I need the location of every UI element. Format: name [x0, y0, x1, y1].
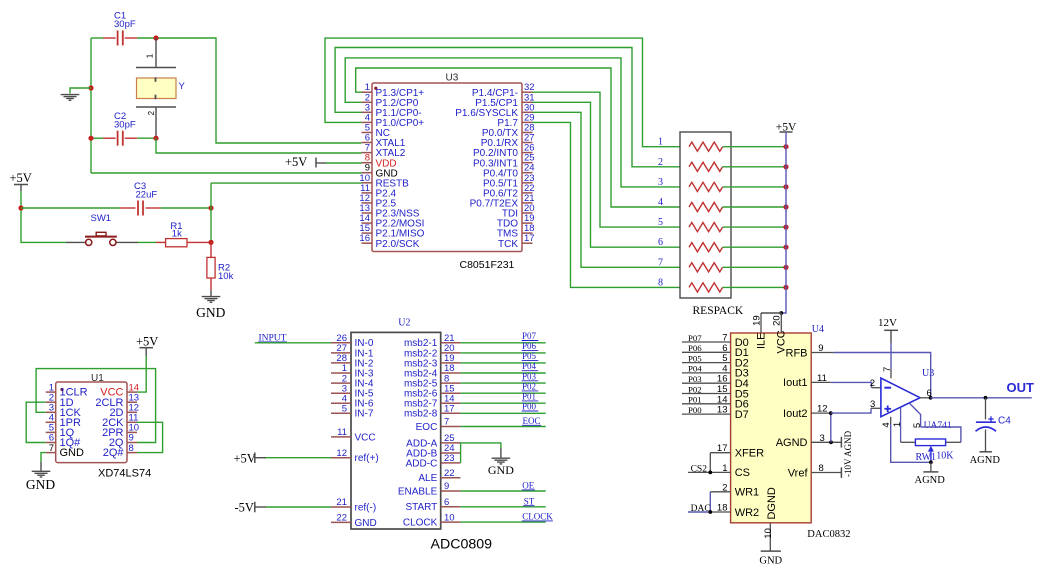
wire Iout2 to AGND [830, 413, 832, 442]
op-amp U3 pin 3 stub [871, 407, 881, 409]
U3 pin 22 P0.6/T2 [522, 192, 533, 194]
U3 pin 30 P1.6/SYSCLK [522, 111, 533, 113]
U3 pin 1 P1.3/CP1+ [362, 91, 373, 93]
svg-text:P06: P06 [522, 341, 537, 351]
wire 1CK to 2Q loop [36, 369, 156, 443]
U2 pin 6 START [441, 506, 461, 508]
wire net C1-XTAL1 top [91, 37, 104, 39]
U1 pin 2 1D [46, 401, 56, 403]
svg-text:Vref: Vref [788, 467, 809, 479]
U2 pin 14 msb2-7 [441, 402, 461, 404]
U4 pin 17 XFER [710, 452, 730, 454]
svg-text:P05: P05 [688, 353, 702, 363]
U3 pin 19 TDO [522, 222, 533, 224]
svg-text:6: 6 [658, 237, 663, 248]
svg-text:9: 9 [444, 481, 449, 492]
wire RESPACK 6 to +5V rail [723, 246, 786, 248]
wire SW1 to R1 [138, 241, 156, 243]
op-amp plus input glyph [884, 408, 891, 410]
terminal -10V AGND [840, 437, 842, 448]
node junction +5V/C3 [18, 205, 23, 210]
wire data P02 [460, 392, 545, 394]
wire U3 pin1 loop to RESPACK row4 [356, 68, 689, 207]
U2 pin 23 ADD-C [441, 462, 461, 464]
svg-text:WR1: WR1 [735, 487, 759, 499]
wire RESPACK 2 to +5V rail [723, 166, 786, 168]
op-amp U3 pin 2 stub [872, 387, 881, 389]
ground symbol top-left [61, 94, 80, 96]
wire pin4 to AGND [891, 424, 931, 462]
U2 pin 17 msb2-8 [441, 412, 461, 414]
svg-text:23: 23 [444, 453, 455, 464]
U1 pin 5 1Q [46, 431, 56, 433]
U3 pin 27 P0.1/RX [522, 142, 533, 144]
svg-text:11: 11 [337, 427, 347, 438]
wire XFER to CS [709, 453, 711, 473]
op-amp U3 pin 1 stub [900, 408, 902, 442]
node junction ground tap [88, 85, 93, 90]
svg-text:2: 2 [658, 157, 663, 168]
svg-text:16: 16 [359, 233, 370, 244]
U2 pin 21 ref(-) [331, 506, 351, 508]
node junction WR2 [708, 510, 712, 514]
wire data P03 [460, 382, 545, 384]
svg-text:RW1: RW1 [916, 452, 937, 463]
U3 pin 11 P2.4 [362, 192, 373, 194]
RESPACK resistor 3 [689, 182, 723, 191]
svg-text:WR2: WR2 [735, 507, 759, 519]
svg-text:ALE: ALE [418, 473, 437, 484]
U3 pin 13 P2.3/NSS [362, 212, 373, 214]
svg-text:VCC: VCC [355, 432, 376, 443]
wire to ground [70, 88, 91, 94]
U4 pin 5 D2 [682, 362, 731, 364]
wire +5V down [21, 191, 66, 242]
wire DAC net to WR1/WR2 [688, 511, 710, 513]
svg-text:Iout1: Iout1 [783, 377, 807, 389]
node junction feedback/output [929, 396, 933, 400]
svg-text:2: 2 [147, 110, 156, 115]
U2 pin 19 msb2-3 [441, 362, 461, 364]
svg-text:+5V: +5V [285, 155, 307, 169]
wire RESPACK 3 to +5V rail [723, 186, 786, 188]
U3 pin 21 P0.7/T2EX [522, 202, 533, 204]
svg-text:P04: P04 [688, 364, 702, 374]
capacitor C1 [103, 37, 116, 39]
svg-text:DAC: DAC [691, 504, 711, 514]
U2 pin 18 msb2-4 [441, 372, 461, 374]
svg-text:4: 4 [658, 197, 663, 208]
U1 pin1 marker [60, 388, 63, 391]
svg-text:7: 7 [49, 443, 54, 454]
node junction AGND [829, 440, 833, 444]
wire INPUT to IN-0 [255, 342, 331, 344]
wire ST [460, 506, 545, 508]
svg-text:30pF: 30pF [114, 120, 136, 131]
svg-text:EOC: EOC [523, 416, 541, 426]
U1 pin 14 VCC [127, 391, 137, 393]
U2 pin 8 msb2-5 [441, 382, 461, 384]
wire RESPACK 4 to +5V rail [723, 206, 786, 208]
wire +5V rail to DAC VCC [781, 132, 786, 313]
wire C1 right to U3 XTAL1 [137, 38, 361, 143]
svg-text:START: START [405, 502, 437, 513]
terminal Vref [840, 467, 842, 478]
capacitor C3 [120, 207, 136, 209]
U4 pin 19 ILE [760, 313, 762, 333]
wire U3 pin2 loop to RESPACK row3 [345, 58, 689, 187]
U2 pin 12 ref(+) [331, 457, 351, 459]
U3 pin 14 P2.2/MOSI [362, 222, 373, 224]
svg-text:10: 10 [444, 512, 455, 523]
RESPACK resistor 7 [689, 263, 723, 272]
wire -5V to ref(-) [266, 506, 331, 508]
capacitor C4 [985, 398, 987, 420]
svg-text:CLOCK: CLOCK [403, 518, 438, 529]
node junction wiper/AGND [929, 460, 933, 464]
U4 pin 20 VCC [780, 313, 782, 333]
U3 pin 16 P2.0/SCK [362, 242, 373, 244]
wire C2 right [137, 137, 156, 139]
wire U3 pin4 loop to RESPACK row1 [325, 38, 689, 147]
svg-text:+5V: +5V [10, 171, 32, 185]
wire data P04 [460, 372, 545, 374]
capacitor C2 [103, 137, 116, 139]
U3 pin 28 P0.0/TX [522, 132, 533, 134]
svg-text:10K: 10K [936, 450, 954, 461]
U2 pin 4 IN-6 [331, 402, 351, 404]
svg-text:3: 3 [658, 177, 663, 188]
wire U3 pin31 to RESPACK row6 [533, 102, 690, 247]
node junction R1/R2 [208, 240, 213, 245]
svg-text:ref(-): ref(-) [355, 502, 377, 513]
op U3 MCU body [372, 83, 522, 252]
wire 1D to 1Q# [26, 402, 46, 442]
wire RFB feedback to output [834, 353, 931, 398]
U2 pin 3 IN-5 [331, 392, 351, 394]
svg-text:AGND: AGND [776, 437, 808, 449]
svg-text:10k: 10k [218, 271, 234, 282]
wire RESPACK 7 to +5V rail [723, 266, 786, 268]
svg-text:P2.0/SCK: P2.0/SCK [376, 239, 420, 250]
svg-text:12V: 12V [878, 317, 897, 329]
svg-text:P03: P03 [688, 374, 702, 384]
wire output OUT [931, 397, 1032, 399]
wire EOC [460, 426, 545, 428]
wire CLOCK [460, 521, 545, 523]
node junction Iout2 [829, 411, 833, 415]
svg-text:GND: GND [196, 305, 225, 320]
U3 pin 6 XTAL1 [362, 142, 373, 144]
wire +5V to C3 [21, 207, 120, 209]
svg-text:RFB: RFB [786, 347, 808, 359]
svg-text:6: 6 [444, 497, 449, 508]
wire U1 GND [41, 453, 46, 462]
U4 pin 12 Iout2 [811, 412, 831, 414]
svg-text:2Q#: 2Q# [103, 447, 125, 459]
ground under R2 [210, 290, 212, 296]
node junction RESTB/C3 [208, 205, 213, 210]
U4 pin 1 CS [688, 471, 731, 473]
svg-text:U4: U4 [812, 324, 824, 335]
svg-text:1: 1 [722, 463, 727, 474]
wire ADD-A to ground [460, 443, 501, 448]
svg-text:UA741: UA741 [924, 421, 952, 431]
wire U3 GND pin9 to left rail [91, 172, 362, 174]
svg-text:C4: C4 [998, 415, 1011, 426]
wire pin5 to RW1 right [921, 427, 961, 442]
svg-text:19: 19 [752, 315, 763, 326]
U3 pin 29 P1.7 [522, 121, 533, 123]
svg-text:P00: P00 [522, 402, 537, 412]
U1 pin 3 1CK [46, 411, 56, 413]
U3 pin 24 P0.4/T0 [522, 172, 533, 174]
U3 pin 4 P1.0/CP0+ [362, 121, 373, 123]
wire data P05 [460, 362, 545, 364]
svg-text:+5V: +5V [234, 451, 256, 465]
svg-text:TCK: TCK [498, 239, 518, 250]
svg-text:P00: P00 [688, 405, 702, 415]
resistor R2 10k [210, 242, 212, 257]
svg-text:GND: GND [759, 555, 782, 566]
svg-text:P07: P07 [688, 333, 702, 343]
power GND terminal DGND [761, 550, 781, 552]
wire RESPACK 5 to +5V rail [723, 226, 786, 228]
ground symbol U1 [40, 462, 42, 471]
svg-text:9: 9 [818, 343, 823, 354]
svg-text:10: 10 [763, 528, 774, 539]
node junction C2/crystal pin2 [153, 136, 158, 141]
RESPACK resistor 1 [689, 142, 723, 151]
svg-text:OUT: OUT [1007, 380, 1035, 395]
U3 pin 23 P0.5/T1 [522, 182, 533, 184]
node junction rail 6 [783, 245, 788, 250]
op U2 ADC body [351, 332, 441, 529]
U1 pin 9 2Q [127, 442, 137, 444]
svg-text:DAC0832: DAC0832 [807, 529, 850, 540]
svg-text:CS2: CS2 [691, 464, 708, 474]
wire data P06 [460, 352, 545, 354]
wire 2CK to 2Q# [137, 422, 163, 452]
op U4 DAC body [731, 333, 812, 523]
svg-text:P04: P04 [522, 361, 537, 371]
U2 pin 22 ALE [441, 477, 461, 479]
U4 pin 18 WR2 [710, 511, 730, 513]
svg-text:Iout2: Iout2 [783, 408, 807, 420]
U2 pin 25 ADD-A [441, 442, 461, 444]
U3 pin 17 TCK [522, 242, 533, 244]
svg-text:8: 8 [129, 443, 134, 454]
svg-text:2: 2 [722, 482, 727, 493]
svg-text:XFER: XFER [735, 448, 764, 460]
U4 pin 15 D5 [682, 393, 731, 395]
svg-text:CS: CS [735, 467, 750, 479]
svg-text:OE: OE [522, 481, 534, 491]
svg-text:P02: P02 [688, 384, 702, 394]
wire 12V to op-amp pin7 [890, 343, 892, 369]
U3 pin1 marker [374, 87, 377, 90]
U3 pin 18 TMS [522, 232, 533, 234]
U2 pin 7 EOC [441, 426, 461, 428]
svg-text:XD74LS74: XD74LS74 [98, 468, 151, 480]
svg-text:ENABLE: ENABLE [398, 486, 438, 497]
node junction rail 4 [783, 204, 788, 209]
wire RESPACK 8 to +5V rail [723, 286, 786, 288]
svg-text:-10V AGND: -10V AGND [843, 430, 853, 477]
RESPACK resistor 2 [689, 162, 723, 171]
svg-text:7: 7 [658, 257, 663, 268]
svg-text:AGND: AGND [970, 455, 1001, 466]
svg-text:P01: P01 [522, 391, 536, 401]
U4 pin 7 D0 [682, 341, 731, 343]
switch SW1 [66, 241, 85, 243]
svg-text:U3: U3 [922, 368, 934, 379]
U2 pin 1 IN-3 [331, 372, 351, 374]
wire +5V to ref(+) [266, 457, 331, 459]
op-amp U3 pin 7 stub [890, 369, 892, 378]
op U1 flip-flop body [56, 382, 127, 463]
node junction C4 tap [984, 396, 988, 400]
svg-text:CLOCK: CLOCK [522, 512, 553, 522]
node junction ILE/VCC [779, 311, 783, 315]
svg-text:1: 1 [145, 53, 154, 58]
svg-text:22: 22 [444, 468, 455, 479]
power AGND terminal under C4 [985, 430, 987, 452]
U4 pin 10 DGND [769, 523, 771, 551]
U2 pin 15 msb2-6 [441, 392, 461, 394]
U3 pin 26 P0.2/INT0 [522, 152, 533, 154]
svg-text:GND: GND [60, 447, 85, 459]
svg-text:-5V: -5V [235, 501, 254, 515]
svg-text:22: 22 [336, 513, 347, 524]
U4 pin 13 D7 [682, 413, 731, 415]
svg-text:P01: P01 [688, 395, 702, 405]
U2 pin 21 msb2-1 [441, 342, 461, 344]
svg-text:D7: D7 [735, 409, 749, 421]
potentiometer RW1 10K [901, 441, 916, 443]
U4 pin 2 WR1 [710, 491, 730, 493]
U2 pin 26 IN-0 [331, 342, 351, 344]
svg-text:11: 11 [817, 373, 827, 384]
svg-text:ref(+): ref(+) [355, 453, 379, 464]
RESPACK resistor 8 [689, 283, 723, 292]
U1 pin 13 2CLR [127, 401, 137, 403]
U3 pin 3 P1.1/CP0- [362, 111, 373, 113]
svg-text:+5V: +5V [136, 335, 158, 349]
U3 pin 10 RESTB [362, 182, 373, 184]
svg-text:IN-7: IN-7 [355, 409, 374, 420]
svg-text:2: 2 [870, 378, 875, 389]
U3 pin 25 P0.3/INT1 [522, 162, 533, 164]
U1 pin 1 1CLR [46, 391, 56, 393]
U3 pin 15 P2.1/MISO [362, 232, 373, 234]
svg-text:U2: U2 [398, 318, 410, 329]
node junction C2 left [88, 136, 93, 141]
ground symbol ADC ADD [500, 448, 502, 458]
U1 pin 7 GND [46, 452, 56, 454]
wire U3 pin3 loop to RESPACK row2 [335, 48, 689, 167]
svg-text:U1: U1 [91, 373, 104, 384]
U2 pin 27 IN-1 [331, 352, 351, 354]
svg-text:7: 7 [882, 367, 893, 372]
node junction C1/crystal pin1 [153, 35, 158, 40]
svg-text:EOC: EOC [416, 422, 438, 433]
node junction rail 2 [783, 164, 788, 169]
svg-text:18: 18 [717, 503, 728, 514]
U4 pin 3 AGND [811, 441, 841, 443]
U3 pin 9 GND [362, 172, 373, 174]
svg-text:8: 8 [819, 463, 824, 474]
U2 pin 11 VCC [331, 436, 351, 438]
U1 pin 10 2PR [127, 431, 137, 433]
U1 pin 11 2CK [127, 421, 137, 423]
U4 pin 9 RFB [811, 352, 834, 354]
svg-text:21: 21 [336, 497, 347, 508]
U1 pin 8 2Q# [127, 452, 137, 454]
op-amp U3 UA741 triangle [881, 378, 920, 417]
node junction CS2 [708, 471, 712, 475]
U2 pin 2 IN-4 [331, 382, 351, 384]
wire OE [460, 490, 545, 492]
svg-text:1k: 1k [172, 229, 182, 240]
wire ILE jog [761, 312, 781, 314]
svg-text:17: 17 [524, 233, 535, 244]
wire C3 to RESTB node [161, 207, 212, 209]
U3 pin 32 P1.4/CP1- [522, 91, 533, 93]
U4 pin 8 Vref [811, 472, 841, 474]
node junction rail 7 [783, 265, 788, 270]
U4 pin 14 D6 [682, 403, 731, 405]
U3 pin 8 VDD [362, 162, 373, 164]
U2 pin 22 GND [331, 521, 351, 523]
wire data P00 [460, 412, 545, 414]
svg-text:ST: ST [524, 496, 535, 506]
wire RESTB to U3 pin10 [211, 182, 362, 184]
svg-text:Y: Y [179, 81, 186, 92]
node junction rail 5 [783, 225, 788, 230]
svg-text:P07: P07 [522, 331, 537, 341]
svg-text:1: 1 [658, 137, 663, 148]
svg-text:17: 17 [444, 404, 455, 415]
svg-text:P05: P05 [522, 351, 537, 361]
wire U3 pin30 to RESPACK row7 [533, 112, 690, 267]
U4 pin 11 Iout1 [811, 381, 831, 383]
U3 pin 2 P1.2/CP0 [362, 101, 373, 103]
U3 pin 12 P2.5 [362, 202, 373, 204]
svg-text:30pF: 30pF [114, 19, 136, 30]
wire Iout1 to op-amp minus [831, 382, 872, 387]
svg-text:20: 20 [772, 315, 783, 326]
op-amp U3 pin 5 stub [910, 403, 921, 427]
svg-text:3: 3 [870, 399, 875, 410]
resistor pack RESPACK body [680, 132, 731, 298]
U3 pin 20 TDI [522, 212, 533, 214]
svg-text:1: 1 [892, 422, 903, 427]
svg-text:13: 13 [717, 405, 728, 416]
op-amp U3 pin 6 output stub [920, 397, 931, 399]
U1 pin 6 1Q# [46, 442, 56, 444]
RESPACK resistor 5 [689, 223, 723, 232]
svg-text:5: 5 [342, 404, 347, 415]
crystal Y1 [155, 38, 157, 68]
wire RESTB vertical [210, 183, 212, 242]
svg-text:22uF: 22uF [136, 190, 158, 201]
wire +5V to U1 VCC [137, 356, 146, 392]
svg-text:GND: GND [355, 518, 377, 529]
U2 pin 9 ENABLE [441, 490, 461, 492]
U3 pin 7 XTAL2 [362, 152, 373, 154]
wire Iout2 to op-amp plus [831, 408, 871, 413]
